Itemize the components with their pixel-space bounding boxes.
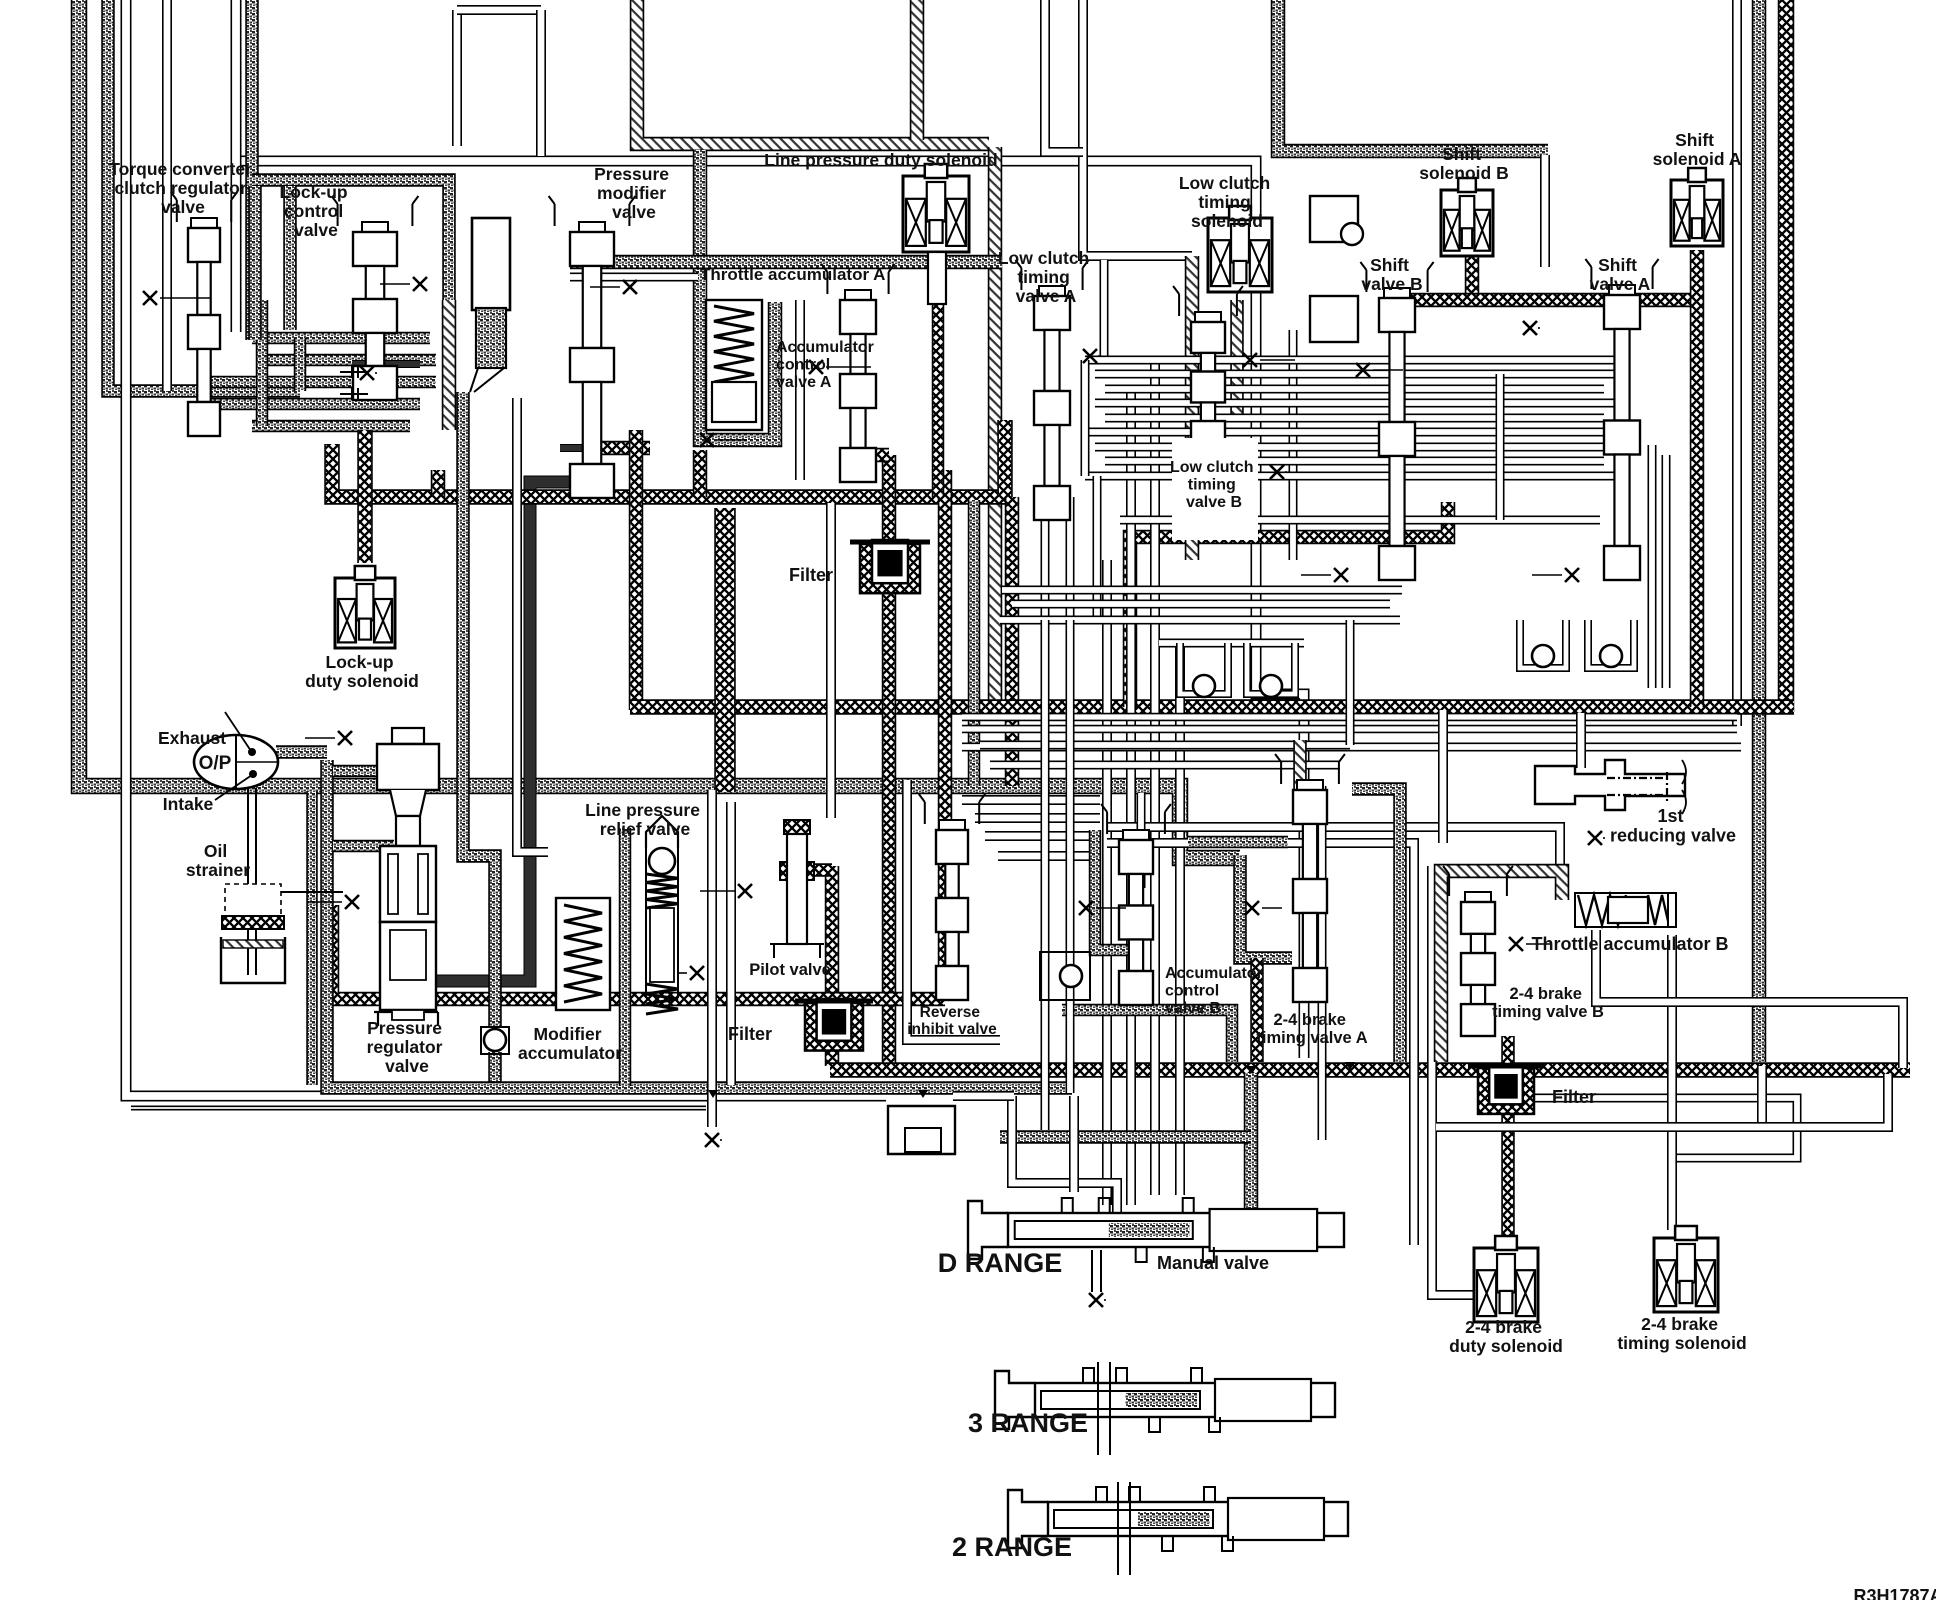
wire top white after e (1540, 155, 1550, 267)
wire top white d2 (1045, 0, 1083, 152)
valve Pressure regulator (392, 728, 424, 744)
wire rv2 (1432, 866, 1536, 1295)
wire shiftA port loops (1648, 445, 1657, 688)
exhaust port x btB (1509, 937, 1523, 951)
exhaust port x lctA (1083, 349, 1097, 363)
solenoid Shift solenoid B (1441, 190, 1493, 256)
wire top white b (536, 10, 546, 156)
wire top hatch down (988, 147, 1003, 705)
valve Torque converter clutch regulator valve (171, 192, 237, 222)
wire pump outlet (276, 745, 327, 759)
wire bl loop1 (1180, 643, 1228, 694)
wire top white right (1732, 0, 1742, 726)
spring modifier accumulator (556, 898, 610, 1010)
wire sl v2 (1496, 374, 1505, 520)
wire lockup duty drop (357, 430, 373, 563)
exhaust port x lockup (413, 277, 427, 291)
wire bl loop3 (1520, 620, 1566, 668)
wire modifier dark (384, 482, 608, 981)
filter upper filter (860, 544, 920, 593)
wire cyl white down (517, 398, 548, 852)
wire spine band 707 (630, 699, 1794, 715)
wire left stipple 2 (108, 0, 300, 391)
wire wide cross mid (714, 508, 736, 792)
wire top hatch mid (637, 0, 989, 144)
wire w726 long (962, 713, 1737, 722)
wire stub cross left (431, 470, 446, 497)
wire tcc loop1 (252, 332, 430, 345)
wire sl h8 (1105, 457, 1604, 466)
wire accA wall stipple (700, 150, 775, 440)
exhaust port x midlat (705, 1133, 719, 1147)
check loop near border (888, 1106, 955, 1154)
wire mid stip drop (968, 500, 981, 786)
solenoid 2-4 brake duty solenoid (1474, 1248, 1538, 1322)
valve Shift valve A (1585, 259, 1658, 289)
wire trb stip (1352, 789, 1400, 1062)
wire top white rect2 (457, 5, 541, 15)
wire 2range stub (1117, 1482, 1119, 1575)
wire btA port hatch (1188, 836, 1288, 849)
wire accA left white (795, 300, 805, 480)
check ball ball lattice 3 (1532, 645, 1554, 667)
wire top white d (1083, 0, 1192, 256)
svg-text:3 RANGE: 3 RANGE (968, 1408, 1088, 1438)
wire border resume (953, 1091, 1014, 1101)
wire tcc loop4 (205, 398, 420, 411)
wire top white rect (452, 10, 462, 146)
wire sl h2 (1095, 370, 1614, 379)
svg-text:2-4 brake duty solenoid: 2-4 brake duty solenoid (1449, 1317, 1563, 1356)
wire accA white under (570, 273, 698, 282)
exhaust port x shvB (1270, 465, 1284, 479)
wire lct A white stub (1100, 260, 1109, 360)
exhaust port x lockup2 (360, 366, 374, 380)
wire lockup top loop (283, 186, 297, 330)
wire cv3 (1150, 362, 1160, 1195)
svg-text:Shift valve B: Shift valve B (1361, 255, 1422, 294)
wire valveB entry (1397, 300, 1412, 332)
svg-text:Exhaust: Exhaust (158, 728, 226, 748)
exhaust port x tcc (143, 291, 157, 305)
valve 1st reducing (horizontal) (1535, 760, 1685, 810)
svg-text:Filter: Filter (789, 565, 833, 585)
wire w726 third (1066, 620, 1075, 1093)
wire right stipple vert (1752, 0, 1767, 1062)
wire 3range stub2 (1109, 1362, 1111, 1455)
wire btA down cross (1250, 958, 1264, 1062)
wire tcc vert1 (256, 300, 269, 426)
wire ll h0b (1012, 600, 1390, 609)
wire 3range stub (1097, 1362, 1099, 1455)
wire first red feed (1576, 713, 1586, 768)
wire lat h1 (962, 795, 1100, 805)
exhaust port x 1stred (1588, 831, 1602, 845)
wire shiftA port loops2 (1662, 455, 1671, 688)
wire tcc loop5 (252, 420, 410, 433)
wire sl h10 (1120, 516, 1600, 525)
wire drange left white2 (1069, 1096, 1079, 1192)
wire border white lower (131, 1106, 706, 1111)
exhaust port x shiftB (1523, 321, 1537, 335)
wire manual x stub2 (1100, 1250, 1102, 1292)
junction marks (708, 1062, 1355, 1098)
valve 2-4 brake timing valve B (1443, 866, 1513, 896)
solenoid Shift solenoid A (1671, 180, 1723, 246)
check ball ball lattice 4 (1600, 645, 1622, 667)
wire sl h6 (1085, 428, 1624, 437)
filter lower filter (805, 1003, 863, 1051)
wire throttle accA frame (570, 255, 1002, 270)
wire cross v945 (938, 470, 953, 999)
svg-text:Reverse inhibit valve: Reverse inhibit valve (907, 1004, 997, 1038)
wire manual stip band (1000, 1130, 1251, 1144)
wire sl h4 (1095, 399, 1614, 408)
wire sl h5 (1105, 414, 1604, 423)
wire right second w (962, 743, 1741, 752)
wire cv1 (1102, 560, 1112, 1205)
valve Lock-up control valve (332, 196, 419, 226)
wire mid lat v1 (707, 790, 717, 1127)
wire sl h3 (1105, 385, 1604, 394)
solenoid Low clutch timing solenoid (1208, 218, 1272, 292)
wire top stipple e (1278, 0, 1548, 151)
valve Manual valve (D range) (968, 1201, 1008, 1259)
exhaust port x btA (1245, 901, 1259, 915)
wire lct A cross (997, 420, 1013, 497)
wire lat h3 (985, 831, 1100, 841)
solenoid 2-4 brake timing solenoid (1654, 1238, 1718, 1312)
wire pilot feed white (826, 503, 836, 818)
exhaust port x modifier (623, 280, 637, 294)
exhaust port x pilot (738, 884, 752, 898)
svg-text:O/P: O/P (199, 753, 232, 774)
orifice box lower (1310, 296, 1358, 342)
wire cv4 (1175, 640, 1185, 1195)
wire pr right cross (332, 905, 945, 999)
wire rv1 (1107, 843, 1414, 1245)
exhaust port x accA2 (700, 433, 714, 447)
wire shiftA sol drop (1690, 250, 1705, 707)
wire shift band (1404, 293, 1697, 308)
valve Manual valve (3 range) (995, 1371, 1035, 1429)
wire drange left white (1012, 1096, 1117, 1212)
wire trb hatch frame (1441, 871, 1562, 1062)
check ball ball lattice 1 (1193, 675, 1215, 697)
exhaust port x lctB (1243, 353, 1257, 367)
valve line pressure relief (646, 816, 678, 848)
wire pump second stip (306, 791, 318, 1085)
valve Reverse inhibit valve (919, 794, 985, 824)
filter lower right filter (1478, 1068, 1534, 1114)
wire filter2 col (882, 455, 897, 1064)
wire rv3 (1667, 935, 1677, 1230)
svg-text:Filter: Filter (1552, 1087, 1596, 1107)
wire filter3 link (1501, 1036, 1515, 1240)
svg-text:Intake: Intake (163, 794, 214, 814)
wire btA stip frame (1240, 855, 1292, 958)
wire cv2 (1126, 385, 1136, 1205)
wire top hatch mid2 (910, 0, 925, 140)
wire relief frame (619, 828, 632, 1086)
wire ll h0 (1002, 586, 1402, 595)
valve 2-4 brake timing valve A (1275, 754, 1345, 784)
wire br lower white2 (1436, 1074, 1888, 1127)
wire lct A hatch vert (1185, 256, 1200, 560)
wire acB hatch frame (1095, 830, 1140, 950)
wire right cross vert (1778, 0, 1795, 712)
wire manual x stub (1091, 1250, 1093, 1292)
wire acB bottom band (1062, 1010, 1232, 1062)
wire ll h1 (1000, 616, 1400, 625)
wire acB white wall (1137, 793, 1146, 888)
oil strainer (225, 884, 281, 918)
valve Pressure modifier valve (549, 196, 636, 226)
wire w726 second (1041, 620, 1050, 1130)
solenoid Lock-up duty solenoid (335, 578, 395, 648)
wire upper long white (241, 161, 1304, 1058)
wire bl loop4 (1588, 620, 1634, 668)
spring relief spring bottom (646, 984, 678, 1014)
wire check to border (488, 1052, 502, 1090)
valve Low clutch timing valve B (1173, 286, 1243, 316)
valve Accumulator control valve B (1101, 804, 1171, 834)
exhaust cap marks lockup (340, 366, 368, 378)
check ball check near PR (484, 1029, 506, 1051)
valve Low clutch timing valve A (1015, 260, 1088, 290)
exhaust port x shvAbot (1565, 568, 1579, 582)
wire mid lat v2 (726, 802, 736, 1085)
wire pr top port (333, 765, 394, 778)
svg-text:Pilot valve: Pilot valve (749, 961, 831, 979)
wire ll h3 (980, 741, 1350, 750)
wire spine stair (1130, 502, 1448, 707)
wire tcc vert2 (294, 338, 307, 391)
svg-text:Manual valve: Manual valve (1157, 1253, 1269, 1273)
svg-text:Throttle accumulator A: Throttle accumulator A (700, 265, 885, 284)
svg-text:Shift valve A: Shift valve A (1590, 255, 1651, 294)
valve Shift valve B (1360, 262, 1433, 292)
exhaust port x prtop (338, 731, 352, 745)
check ball ball lattice 2 (1260, 675, 1282, 697)
spring throttle accumulator A (706, 300, 762, 430)
wire sl h7 (1095, 443, 1614, 452)
wire bottom stipple band (327, 760, 1072, 1088)
exhaust port x lctB2 (1356, 363, 1370, 377)
wire pilot elbow (806, 863, 832, 877)
wire strainer right (281, 891, 343, 893)
wire left border white (126, 0, 886, 1096)
wire ll h4 (990, 761, 1340, 770)
svg-text:Throttle accumulator B: Throttle accumulator B (1531, 934, 1728, 954)
wire shiftB sol drop (1465, 252, 1480, 300)
valve Accumulator control valve A (821, 264, 894, 294)
wire pump down1 (247, 788, 249, 975)
exhaust port x manual (1089, 1293, 1103, 1307)
wire filter2 elbow (858, 448, 889, 463)
wire accA cross elbow (693, 450, 708, 497)
wire sl v3 (1041, 497, 1050, 620)
wire sl h1 (1085, 356, 1624, 365)
wire lcts drop (1230, 300, 1244, 420)
wire sl h9 (1085, 472, 1624, 481)
exhaust port x relief (690, 966, 704, 980)
pump O/P (194, 735, 278, 789)
wire manual stip (1244, 1073, 1259, 1215)
wire btA down white (1318, 786, 1327, 1140)
exhaust port x reverse (1079, 901, 1093, 915)
wire cyl stipple down (463, 392, 495, 1026)
wire w729 long (962, 725, 1737, 734)
svg-text:Line pressure duty solenoid: Line pressure duty solenoid (764, 150, 997, 170)
wire top stipple a (245, 0, 259, 340)
wire pump down2 (255, 788, 257, 975)
wire 2range stub2 (1129, 1482, 1131, 1575)
wire ll h2 (1159, 639, 1304, 648)
spring throttle accumulator B (horizontal) (1575, 893, 1675, 927)
wire sl v1 (1081, 360, 1090, 476)
exhaust port x pr (345, 895, 359, 909)
wire bottom cross band (830, 1062, 1910, 1078)
wire upper left white vert (231, 0, 242, 332)
orifice box upper (1310, 196, 1358, 242)
wire ll v5 (1346, 620, 1355, 745)
wire left stipple main (79, 0, 1240, 858)
wire rev frame (907, 780, 1000, 1040)
wire tcc dark hint2 (560, 444, 588, 452)
valve Manual valve (2 range) (1008, 1490, 1048, 1548)
wire left white pair2 (162, 0, 172, 391)
valve converter relief cylinder (472, 218, 510, 310)
wire sl v5 (1093, 476, 1102, 620)
wire br lower white (1757, 1066, 1767, 1124)
wire lctB channel right (1289, 330, 1298, 560)
svg-text:D RANGE: D RANGE (938, 1248, 1063, 1278)
svg-text:Line pressure relief valve: Line pressure relief valve (585, 800, 705, 839)
wire lockup feed top (252, 180, 449, 300)
wire tcc loop2 (262, 354, 436, 367)
solenoid Line pressure duty solenoid (903, 176, 969, 252)
spring relief spring top (646, 874, 678, 908)
wire btA hatch (1293, 740, 1307, 790)
spring modifier accumulator spring (564, 905, 602, 1002)
wire lat h2 (975, 813, 1100, 823)
wire lp duty sol drop (932, 250, 945, 497)
wire sl v4 (1066, 497, 1075, 620)
wire right step white (1438, 710, 1448, 843)
solenoid stem (928, 252, 946, 304)
wire spine down1 (1005, 497, 1020, 786)
wire tcc loop3 (205, 376, 436, 389)
wire lockup top loop2 (248, 186, 262, 340)
wire lat h4 (998, 851, 1100, 861)
wire spine upper band (332, 444, 1012, 497)
wire br filter white (1515, 1098, 1797, 1158)
wire bl loop2 (1247, 643, 1295, 694)
wire modifier cross stub (590, 441, 650, 456)
svg-text:Filter: Filter (728, 1024, 772, 1044)
wire lockup right hatch (442, 300, 457, 430)
check ball check near reverse (1060, 965, 1082, 987)
svg-text:2 RANGE: 2 RANGE (952, 1532, 1072, 1562)
wire br corner white (1596, 930, 1903, 1068)
exhaust port x shvBbot (1334, 568, 1348, 582)
valve pilot (784, 820, 810, 834)
wire pr mid port (333, 840, 394, 853)
wire rh acc feed (1107, 827, 1560, 866)
wire spine modifier down (629, 430, 644, 710)
wire tcc dark hint (352, 360, 420, 368)
spring throttle accumulator A spring (714, 306, 754, 382)
exhaust port x accA (809, 360, 823, 374)
wire pilot down cross (825, 866, 840, 1066)
svg-text:R3H1787A: R3H1787A (1853, 1586, 1936, 1600)
